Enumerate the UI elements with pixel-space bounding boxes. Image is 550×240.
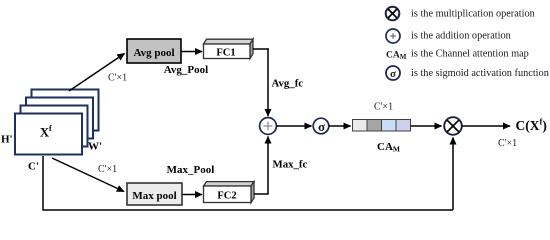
wire: diagonal arrow stack to Avg pool (69, 54, 125, 92)
feature map stack X^f (15, 90, 99, 155)
svg-text:σ: σ (390, 68, 396, 80)
legend multiplier symbol (386, 7, 400, 21)
wire: adder to sigma (277, 125, 312, 127)
CA_M bar (353, 120, 411, 132)
Avg pool box (127, 39, 181, 63)
wire: sigma to CA_M bar (329, 125, 351, 127)
wire: bypass from stack to multiplier (43, 156, 453, 210)
legend adder symbol (386, 29, 400, 43)
svg-text:C'×1: C'×1 (374, 102, 393, 113)
svg-text:Max_Pool: Max_Pool (167, 164, 215, 176)
wire: Avg pool to FC1 (182, 51, 203, 53)
svg-text:H': H' (1, 134, 13, 146)
svg-text:CAM: CAM (377, 141, 400, 154)
svg-text:is the sigmoid activation func: is the sigmoid activation function (411, 68, 549, 79)
svg-text:σ: σ (318, 119, 325, 134)
wire: FC1 to adder (253, 48, 269, 50)
svg-text:C': C' (28, 161, 39, 173)
svg-text:W': W' (88, 141, 102, 153)
sigmoid node (313, 118, 329, 134)
svg-text:Max_fc: Max_fc (273, 159, 308, 171)
svg-text:is the multiplication operatio: is the multiplication operation (411, 9, 535, 20)
svg-text:is the Channel attention map: is the Channel attention map (411, 49, 529, 60)
svg-text:Avg_Pool: Avg_Pool (164, 64, 208, 76)
FC1 3D box (204, 39, 254, 58)
svg-text:CAM: CAM (386, 51, 407, 62)
svg-text:C'×1: C'×1 (98, 164, 117, 175)
svg-text:Avg_fc: Avg_fc (272, 78, 304, 90)
svg-text:FC1: FC1 (216, 48, 235, 59)
svg-text:FC2: FC2 (217, 191, 236, 202)
svg-text:C'×1: C'×1 (498, 138, 517, 149)
wire: diagonal arrow stack to Max pool (52, 158, 124, 192)
svg-text:is the addition operation: is the addition operation (411, 31, 511, 42)
svg-text:C(Xf): C(Xf) (516, 117, 547, 134)
FC2 3D box (204, 182, 255, 203)
legend sigmoid symbol (386, 66, 400, 80)
wire: bar to multiplier (411, 125, 442, 127)
wire: multiplier to output (463, 125, 511, 127)
adder node + (260, 118, 277, 135)
svg-text:Max pool: Max pool (132, 190, 176, 202)
Max pool box (127, 183, 182, 205)
wire: FC2 to adder (254, 193, 269, 195)
wire: Max pool to FC2 (183, 194, 203, 196)
multiplier node x (444, 117, 462, 135)
svg-text:C'×1: C'×1 (108, 73, 127, 84)
svg-text:Avg pool: Avg pool (133, 47, 174, 59)
